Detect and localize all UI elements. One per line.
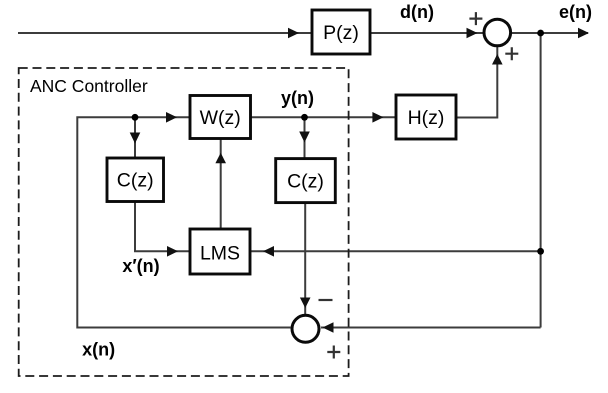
svg-text:C(z): C(z) [287,171,324,193]
block LMS [190,229,250,274]
wire: right vertical feedback from e(n) node [540,33,542,328]
sign: plus upper-left of upper summing junction [469,12,482,25]
wire: LMS adaptation output up to W(z) [220,139,222,230]
arrowhead: e(n) output arrow [578,28,589,39]
sign: minus above-right of lower summing junction [319,299,333,301]
svg-text:ANC Controller: ANC Controller [30,76,148,96]
arrowhead: error wire into LMS [263,246,274,257]
block C(z) right [276,159,336,203]
arrowhead: x(n) wire into W(z) [166,112,177,123]
svg-text:C(z): C(z) [117,170,154,192]
wire: bottom feedback into lower summing junction [321,327,541,329]
arrowhead: LMS wire into W(z) bottom [215,153,226,164]
arrowhead: branch into left C(z) [130,133,141,144]
wire: primary path input into P(z) [18,32,312,34]
wire: error feedback into LMS right side [250,250,541,252]
node: junction dot y(n) [301,114,308,121]
node: junction dot e(n) [537,30,544,37]
wire: right C(z) output down to lower summing junction [304,203,306,314]
wire: x(n) path from lower summing junction to W(z) input [77,117,290,327]
arrowhead: branch into right C(z) [299,132,310,143]
block C(z) left [107,158,164,202]
block H(z) [396,95,456,139]
block W(z) [190,96,251,139]
node: junction dot on W(z) input wire [132,114,139,121]
svg-text:LMS: LMS [200,243,240,265]
summing junction: upper [484,19,511,46]
wire: branch down to left C(z) [134,117,136,158]
wire: branch down to right C(z) [304,117,306,158]
svg-text:y(n): y(n) [281,88,314,108]
arrowhead: d(n) wire into summing junction [467,28,478,39]
sign: plus below-right of upper summing junction [505,47,518,60]
wire: W(z) output to H(z) [251,116,397,118]
arrowhead: H(z) path into summing junction bottom [492,54,503,65]
sign: plus below-right of lower summing junction [327,346,340,359]
wire: left C(z) output to LMS input (x'(n)) [135,202,190,252]
arrowhead: input wire into P(z) [288,28,299,39]
svg-text:W(z): W(z) [200,107,241,129]
node: junction dot on error feedback to LMS [537,248,544,255]
arrowhead: y(n) wire into H(z) [372,112,383,123]
svg-text:H(z): H(z) [408,107,445,129]
arrowhead: right C(z) path into lower summing junction top [300,298,311,309]
summing junction: lower [292,315,319,342]
wire: P(z) output to summing junction [370,32,483,34]
wire: summing junction output to e(n) [512,32,588,34]
wire: H(z) output up to summing junction [456,47,497,118]
arrowhead: feedback wire into lower summing junction right [323,322,334,333]
arrowhead: x'(n) wire into LMS [167,246,178,257]
svg-text:d(n): d(n) [400,2,434,22]
svg-text:P(z): P(z) [323,22,359,44]
svg-text:x′(n): x′(n) [122,256,159,276]
block P(z) [312,10,370,54]
svg-text:x(n): x(n) [82,340,115,360]
dashed boundary: ANC Controller [19,68,349,376]
svg-text:e(n): e(n) [559,2,592,22]
